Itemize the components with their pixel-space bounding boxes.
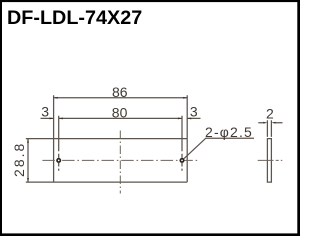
svg-text:86: 86 [112, 84, 128, 100]
svg-text:3: 3 [190, 104, 198, 120]
svg-text:28.8: 28.8 [11, 142, 27, 177]
svg-text:2: 2 [266, 106, 274, 122]
svg-text:80: 80 [112, 105, 128, 121]
svg-text:3: 3 [41, 104, 49, 120]
svg-text:2-φ2.5: 2-φ2.5 [205, 124, 253, 140]
